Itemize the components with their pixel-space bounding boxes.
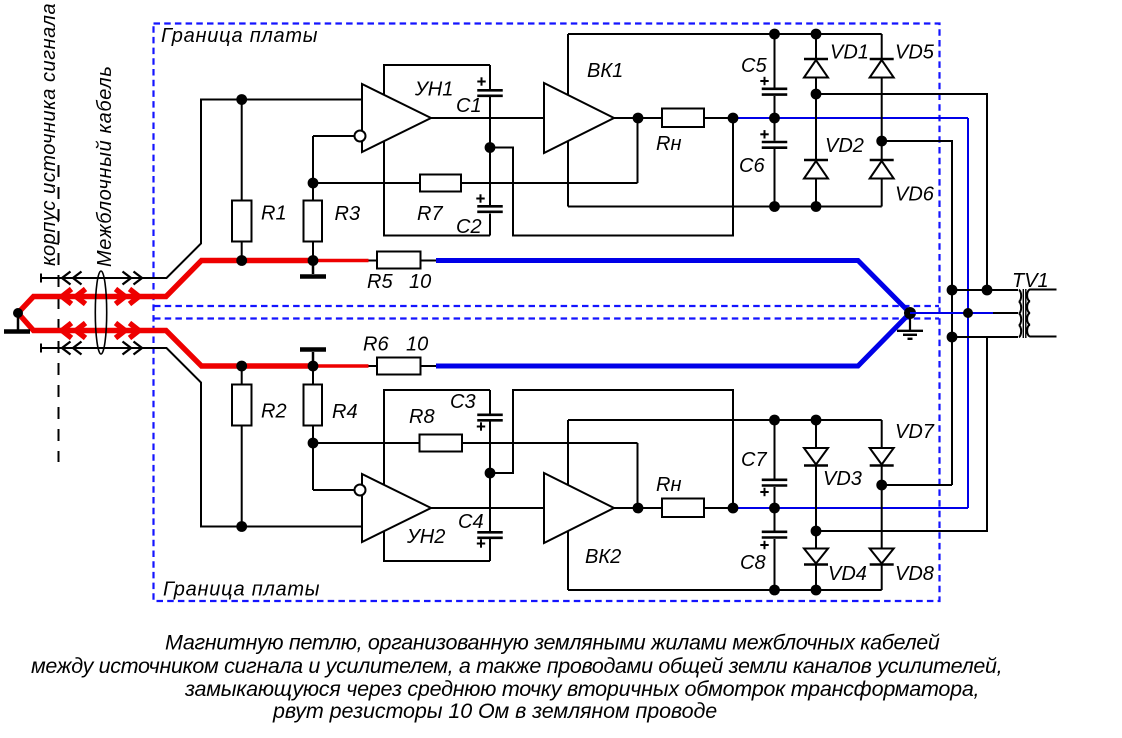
- svg-text:VD6: VD6: [895, 184, 935, 206]
- svg-text:С7: С7: [741, 449, 767, 471]
- svg-text:R8: R8: [409, 406, 435, 428]
- svg-text:С3: С3: [450, 391, 476, 413]
- svg-text:между источником сигнала и уси: между источником сигнала и усилителем, а…: [31, 654, 1002, 678]
- svg-text:R5: R5: [367, 271, 393, 293]
- svg-text:ВК1: ВК1: [587, 60, 623, 82]
- svg-text:10: 10: [406, 334, 428, 356]
- svg-text:R1: R1: [261, 203, 287, 225]
- svg-text:ВК2: ВК2: [585, 546, 621, 568]
- svg-text:R3: R3: [335, 203, 361, 225]
- svg-text:VD5: VD5: [895, 42, 935, 64]
- svg-text:замыкающуюся через среднюю точ: замыкающуюся через среднюю точку вторичн…: [184, 677, 979, 701]
- svg-text:Граница платы: Граница платы: [163, 579, 320, 601]
- svg-text:VD4: VD4: [828, 563, 867, 585]
- svg-text:VD7: VD7: [895, 421, 935, 443]
- svg-text:С5: С5: [741, 55, 767, 77]
- svg-text:R6: R6: [363, 334, 389, 356]
- svg-text:VD1: VD1: [830, 42, 869, 64]
- svg-text:R2: R2: [261, 401, 287, 423]
- svg-text:10: 10: [409, 271, 431, 293]
- svg-text:R7: R7: [417, 203, 443, 225]
- svg-text:VD2: VD2: [825, 135, 864, 157]
- svg-text:Rн: Rн: [656, 133, 681, 155]
- svg-text:Rн: Rн: [656, 474, 681, 496]
- svg-text:С1: С1: [456, 95, 482, 117]
- svg-text:УН2: УН2: [406, 526, 445, 548]
- svg-text:TV1: TV1: [1012, 270, 1049, 292]
- svg-text:корпус источника сигнала: корпус источника сигнала: [38, 3, 60, 266]
- svg-text:R4: R4: [332, 401, 358, 423]
- svg-text:С8: С8: [740, 552, 766, 574]
- svg-text:VD8: VD8: [895, 563, 934, 585]
- svg-text:Магнитную петлю, организованну: Магнитную петлю, организованную земляным…: [165, 631, 940, 655]
- svg-text:Граница платы: Граница платы: [161, 25, 318, 47]
- svg-text:УН1: УН1: [414, 79, 453, 101]
- svg-text:Межблочный кабель: Межблочный кабель: [94, 65, 116, 267]
- svg-text:рвут резисторы 10 Ом в земляно: рвут резисторы 10 Ом в земляном проводе: [272, 699, 717, 723]
- svg-text:С2: С2: [456, 216, 482, 238]
- svg-text:С6: С6: [739, 155, 765, 177]
- svg-text:С4: С4: [458, 511, 484, 533]
- svg-text:VD3: VD3: [823, 468, 862, 490]
